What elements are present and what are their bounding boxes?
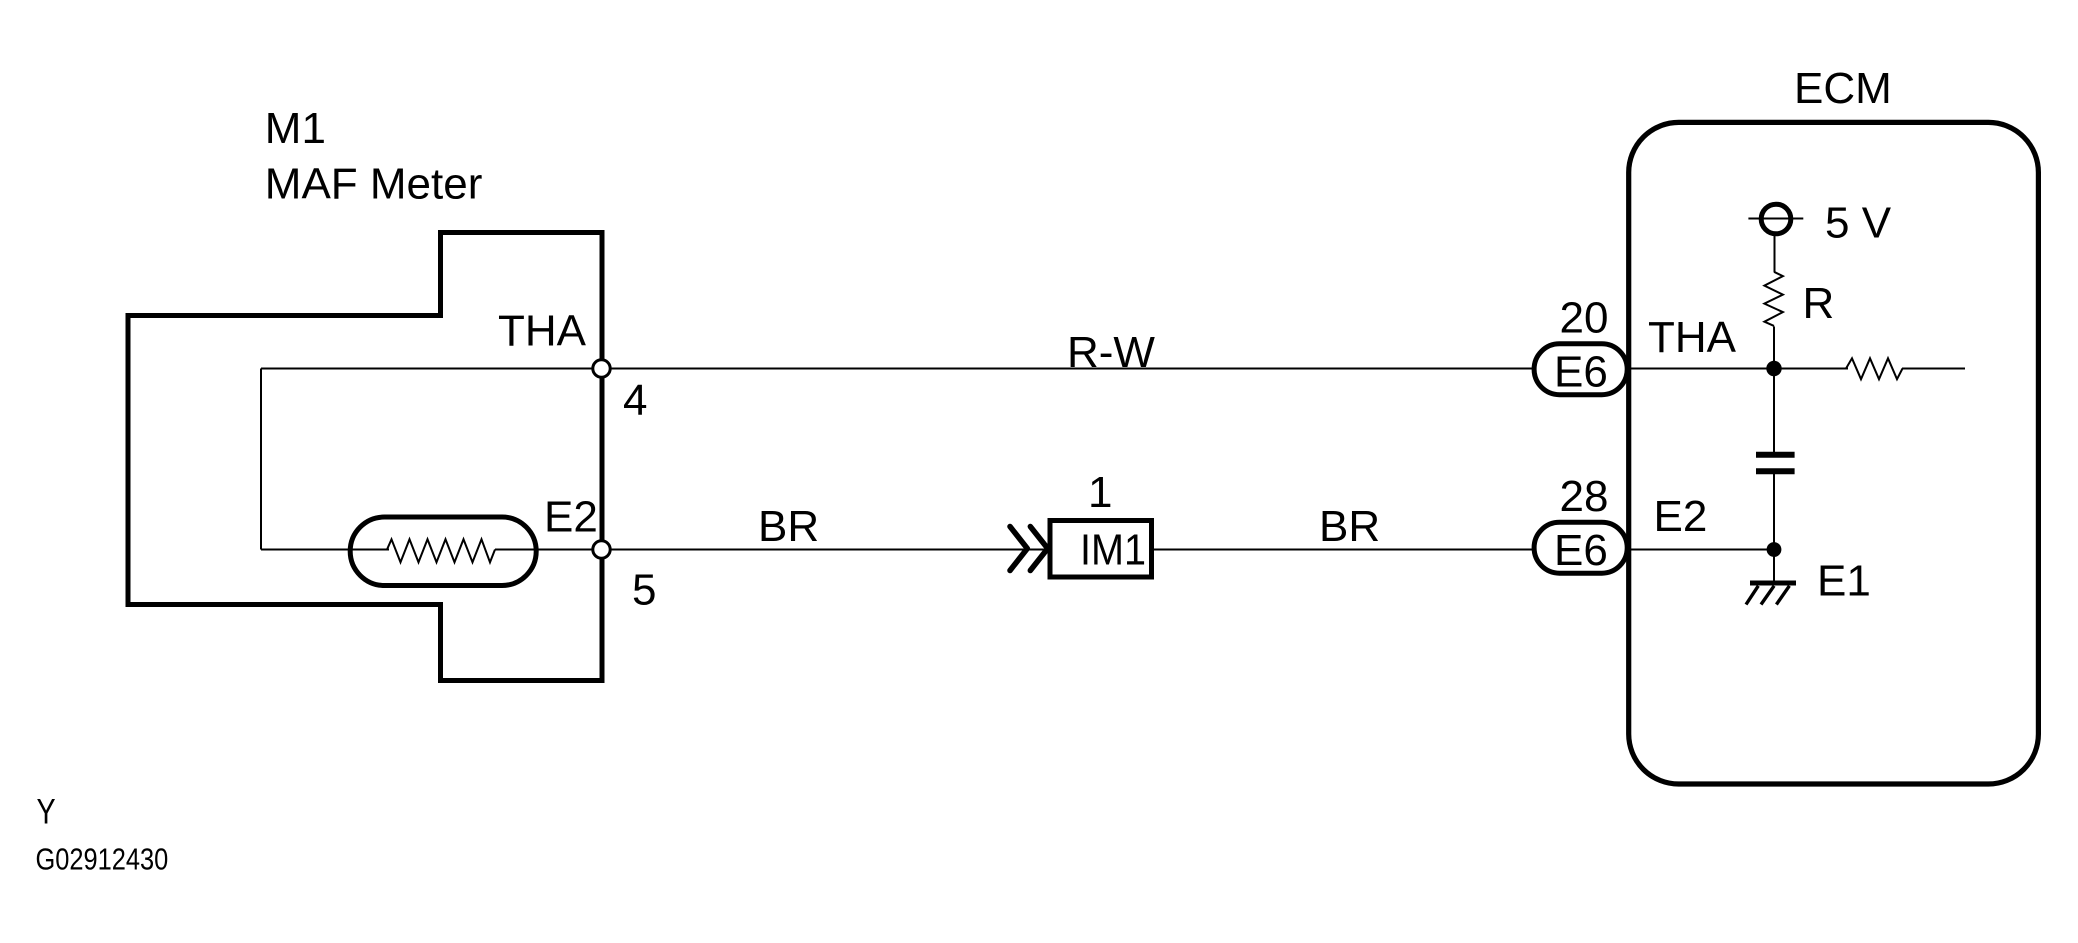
capacitor plates [1756,455,1795,472]
wire BR from IM1 to connector E6 [1153,549,1534,551]
junction connector IM1 box [1050,521,1152,578]
5V supply symbol [1748,204,1803,234]
svg-text:20: 20 [1560,293,1609,342]
svg-text:THA: THA [498,307,587,356]
ground E1 symbol [1746,583,1796,605]
MAF meter M1 label [265,104,483,209]
thermistor capsule outline [350,517,536,586]
label E2 pin 5 [544,492,656,614]
MAF meter M1 connector outline [128,233,602,681]
svg-text:E2: E2 [1654,492,1708,541]
svg-text:28: 28 [1560,472,1609,521]
wire node to capacitor [1773,369,1775,453]
label IM1 pin 1 [1080,468,1146,575]
resistor R (vertical zigzag) [1764,272,1783,326]
ECM body [1629,122,2039,784]
svg-text:BR: BR [758,502,819,551]
wire E2 inside ECM to node [1630,549,1774,551]
wire internal E2 segment [261,549,389,551]
svg-text:E2: E2 [544,492,598,541]
svg-text:4: 4 [623,376,647,425]
wire THA R-W from pin 4 to connector E6 [601,368,1534,370]
connector E6 pin 28 [1534,472,1627,575]
label THA pin 4 [498,307,647,425]
wire output stub [1902,368,1965,370]
wire from resistor R to node THA [1773,326,1775,368]
svg-text:E6: E6 [1554,526,1608,575]
node junction dot THA [1766,361,1781,376]
svg-text:IM1: IM1 [1080,526,1146,575]
svg-text:BR: BR [1319,502,1380,551]
connector E6 pin 20 [1534,293,1627,396]
svg-text:G02912430: G02912430 [36,842,169,877]
node junction dot E2 [1767,542,1782,557]
svg-text:R: R [1803,279,1835,328]
svg-text:THA: THA [1648,313,1737,362]
svg-text:M1: M1 [265,104,326,153]
wire capacitor to node E2 [1773,474,1775,550]
svg-text:ECM: ECM [1794,64,1892,113]
svg-text:E1: E1 [1817,556,1871,605]
pin 5 terminal (E2) [593,541,610,558]
wire from 5V to resistor R [1774,234,1776,272]
wire BR from pin 5 to junction IM1 [601,549,1050,551]
wire internal THA loop [261,369,601,550]
wire THA inside ECM to node [1630,368,1848,370]
svg-text:Y: Y [37,792,56,831]
svg-text:E6: E6 [1554,348,1608,397]
svg-text:5 V: 5 V [1825,198,1892,247]
wire node to ground [1773,550,1775,583]
svg-text:R-W: R-W [1067,328,1155,377]
resistor to output (horizontal zigzag) [1846,358,1903,379]
wire from resistor to pin 5 [495,549,601,551]
svg-text:1: 1 [1088,468,1112,517]
svg-text:MAF Meter: MAF Meter [265,160,483,209]
junction connector arrows [1010,527,1048,571]
pin 4 terminal (THA) [593,360,610,377]
svg-text:5: 5 [632,566,656,615]
resistor element inside MAF (zigzag) [387,539,495,562]
